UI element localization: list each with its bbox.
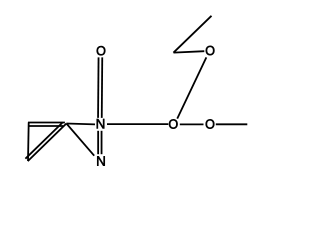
bond CH2-CH3 — [173, 16, 211, 53]
bond C2-N2 — [66, 124, 94, 156]
atom O3 (ethoxy oxygen) — [206, 46, 215, 55]
bond N1-O1 — [107, 123, 168, 125]
bond C2-N1 — [66, 123, 95, 126]
bond CH2-O3 — [174, 51, 205, 52]
bond N1=O left line — [97, 57, 100, 118]
bond N1=O right line — [101, 57, 104, 118]
bond O2-CH3 — [216, 123, 248, 125]
bond O1-O3 diagonal — [177, 57, 206, 118]
atom O1 (first peroxide oxygen) — [169, 119, 178, 128]
bond C1=C2 main top line — [28, 122, 65, 124]
bond N1=N2 left line — [97, 131, 99, 154]
bond O1-O2 — [180, 123, 204, 125]
atom O (N-oxide oxygen) — [97, 46, 106, 55]
bond C3=C2 inner diagonal line — [25, 122, 62, 158]
atom N1 (upper ring nitrogen) — [97, 119, 105, 129]
bond N1=N2 right line — [101, 131, 103, 154]
atom O2 (second peroxide oxygen) — [206, 119, 215, 128]
atom N2 (lower ring nitrogen) — [97, 156, 105, 166]
bond C3=C2 main diagonal line — [28, 124, 67, 162]
bond C1-C3 left edge — [27, 122, 30, 161]
bond C1=C2 inner top line — [30, 125, 64, 127]
